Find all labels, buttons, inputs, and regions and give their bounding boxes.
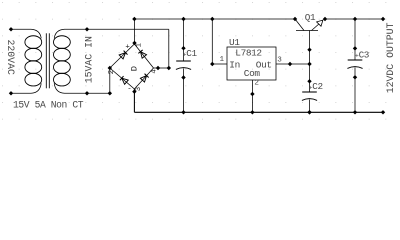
svg-text:C1: C1: [186, 48, 197, 59]
svg-text:15VAC IN: 15VAC IN: [83, 36, 94, 83]
svg-text:3: 3: [135, 87, 143, 91]
svg-text:3: 3: [277, 56, 282, 64]
svg-text:12VDC OUTPUT: 12VDC OUTPUT: [385, 22, 396, 93]
svg-text:D: D: [130, 66, 140, 71]
svg-text:U1: U1: [229, 37, 240, 48]
svg-text:2: 2: [254, 80, 259, 88]
svg-text:4: 4: [150, 69, 158, 74]
svg-text:Com: Com: [244, 68, 261, 79]
svg-text:220VAC: 220VAC: [5, 40, 16, 75]
svg-text:Q1: Q1: [305, 12, 316, 23]
svg-text:1: 1: [135, 42, 143, 47]
svg-text:2: 2: [108, 70, 116, 74]
svg-text:In: In: [229, 60, 240, 71]
svg-text:+: +: [125, 44, 129, 52]
svg-text:-: -: [127, 85, 131, 93]
svg-text:C2: C2: [312, 81, 322, 92]
svg-text:C3: C3: [359, 49, 369, 60]
svg-text:1: 1: [220, 56, 225, 64]
svg-text:15V 5A Non CT: 15V 5A Non CT: [13, 100, 84, 111]
svg-text:L7812: L7812: [235, 48, 261, 59]
